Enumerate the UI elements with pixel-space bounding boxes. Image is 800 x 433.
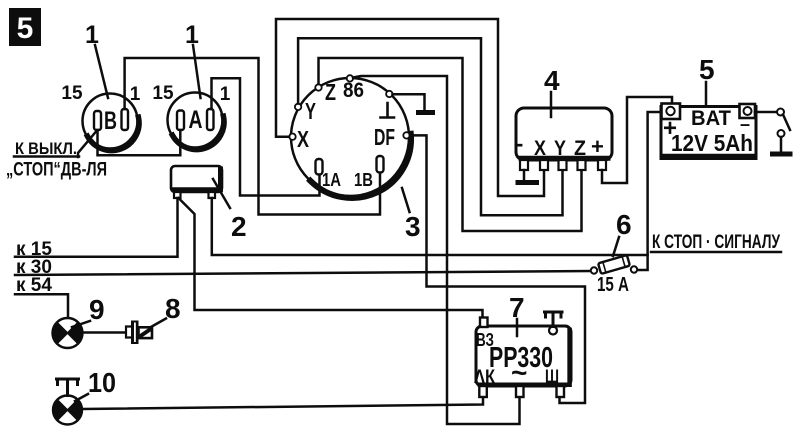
label К ВЫКЛ. СТОП ДВ-ЛЯ: [6, 139, 107, 181]
wire generator 86 to regulator ~: [353, 76, 520, 424]
svg-text:X: X: [534, 137, 546, 160]
label к54: [16, 275, 52, 296]
battery 5 body: [661, 104, 756, 159]
wire lamp 9 to connector 8: [83, 331, 126, 334]
svg-text:15: 15: [61, 83, 83, 104]
svg-text:-: -: [516, 131, 523, 156]
ground symbol (lamp 10): [57, 379, 79, 396]
ground symbol (switch): [773, 152, 791, 157]
svg-text:Ш: Ш: [545, 367, 559, 388]
svg-text:Z: Z: [574, 137, 586, 160]
wire generator X to rectifier X: [276, 19, 544, 196]
generator 3 body: [291, 78, 411, 198]
svg-text:15 А: 15 А: [597, 274, 629, 296]
svg-text:1В: 1В: [354, 170, 373, 190]
tail lamp 10: [53, 396, 82, 425]
svg-text:86: 86: [343, 79, 364, 102]
label 5 pointer: [699, 54, 715, 104]
label 3 pointer: [402, 188, 421, 242]
ground symbol (generator): [419, 110, 433, 115]
wire к30 line to fuse: [15, 271, 591, 275]
svg-text:X: X: [297, 126, 310, 152]
label 9 pointer: [72, 294, 105, 327]
wire generator Z to rectifier Z: [319, 58, 582, 231]
wire к54 line to lamp 9: [15, 294, 68, 318]
label 1 pointer (coil A): [185, 21, 200, 98]
svg-text:ΛК: ΛК: [474, 367, 495, 388]
generator terminal 1A: [316, 159, 323, 175]
ignition coil A (item 1): [168, 93, 225, 150]
svg-text:3: 3: [405, 211, 421, 242]
warning lamp 9: [53, 318, 83, 348]
figure number badge 5: [9, 8, 41, 46]
label 6 pointer: [613, 209, 632, 256]
svg-text:12V 5Ah: 12V 5Ah: [671, 130, 753, 156]
wire battery minus to switch: [755, 111, 777, 114]
generator terminal Y: [295, 104, 301, 110]
svg-text:DF: DF: [374, 124, 395, 150]
fuse 6: [591, 255, 637, 274]
generator terminal X: [289, 134, 295, 140]
svg-text:5: 5: [17, 12, 34, 45]
generator ground terminal: [386, 91, 392, 97]
wire coil B 15 to coil A 15: [98, 130, 181, 155]
label к30: [16, 257, 52, 278]
wire coil A terminal 1 up-over to generator 1A: [212, 78, 320, 195]
svg-text:BAT: BAT: [691, 107, 731, 130]
svg-text:1А: 1А: [322, 170, 341, 190]
wire generator Y to rectifier Y: [298, 38, 562, 215]
coil B terminal labels 15 / 1: [61, 83, 140, 105]
generator terminal 1B: [377, 156, 384, 173]
coil A terminal labels 15 / 1: [152, 83, 230, 105]
svg-text:1: 1: [220, 84, 231, 105]
svg-text:10: 10: [88, 367, 116, 398]
regulator РР330 (item 7) body: [474, 318, 571, 398]
wire breaker 2 left terminal to к15 line: [15, 198, 178, 257]
svg-text:„СТОП“ДВ-ЛЯ: „СТОП“ДВ-ЛЯ: [6, 160, 107, 181]
svg-text:А: А: [189, 106, 203, 134]
generator terminal DF: [403, 132, 409, 138]
generator terminal 86: [347, 75, 353, 81]
label 10 pointer: [75, 367, 116, 401]
label 7 pointer: [509, 292, 525, 336]
connector 8: [126, 321, 152, 345]
ground symbol (regulator): [545, 312, 563, 327]
svg-text:1: 1: [130, 84, 141, 105]
ignition coil B (item 1): [83, 94, 140, 151]
brake-light breaker 2 body: [171, 166, 222, 198]
switch (battery disconnect): [777, 109, 790, 153]
label 15 А: [597, 274, 629, 296]
svg-text:~: ~: [511, 357, 527, 388]
label К СТОП-СИГНАЛУ: [652, 232, 780, 253]
wire coil B terminal 1 up-over to generator 1B: [125, 58, 380, 215]
wire generator DF to regulator Ш: [410, 135, 585, 403]
svg-text:5: 5: [699, 54, 715, 85]
wire battery plus to fuse: [637, 112, 661, 270]
label к15: [16, 239, 52, 260]
generator terminal labels: [297, 79, 395, 190]
wire coil B 15 to stop switch label: [78, 131, 97, 157]
svg-text:8: 8: [165, 293, 181, 324]
svg-text:15: 15: [152, 83, 174, 104]
label 4 pointer: [544, 65, 560, 117]
svg-text:К СТОП · СИГНАЛУ: К СТОП · СИГНАЛУ: [652, 232, 780, 253]
label 2 pointer: [213, 179, 247, 242]
generator terminal Z: [315, 84, 321, 90]
svg-text:6: 6: [616, 209, 632, 240]
svg-text:Y: Y: [554, 137, 566, 160]
wire generator ground terminal to ground: [393, 94, 425, 110]
svg-text:к 54: к 54: [16, 275, 52, 296]
rectifier block 4 body: [516, 108, 612, 170]
svg-text:9: 9: [89, 294, 105, 325]
svg-text:К ВЫКЛ.: К ВЫКЛ.: [15, 139, 77, 158]
svg-text:Y: Y: [305, 98, 316, 124]
svg-text:+: +: [591, 134, 604, 159]
label 8 pointer: [150, 293, 181, 328]
svg-text:В: В: [104, 107, 117, 135]
ground symbol (rectifier): [518, 180, 537, 185]
wire breaker 2 left terminal to regulator ВЗ: [179, 198, 483, 318]
wire rectifier plus to battery plus: [602, 97, 672, 183]
generator internal ground mark: [381, 103, 395, 118]
svg-text:1: 1: [85, 21, 99, 49]
svg-text:2: 2: [231, 211, 247, 242]
wire rectifier minus to ground: [523, 170, 526, 180]
wire breaker 2 right terminal to fuse feed: [212, 198, 648, 255]
wire lamp 10 to regulator ЛК: [82, 397, 483, 409]
label 1 pointer (coil B): [85, 21, 108, 98]
svg-text:Z: Z: [325, 79, 336, 105]
